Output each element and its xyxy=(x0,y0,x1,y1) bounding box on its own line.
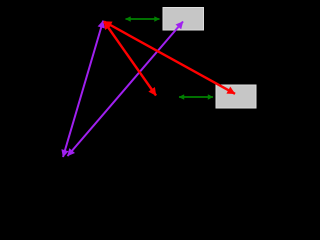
red double arrow D (top point to box 2) xyxy=(104,22,235,94)
green double arrow G2 (middle) xyxy=(179,96,213,98)
green double arrow G1 (top) xyxy=(126,18,160,20)
label box 2 (middle right) xyxy=(216,85,256,108)
label box 1 (top right) xyxy=(163,8,204,31)
red double arrow C (top point to mid lower) xyxy=(104,22,156,96)
purple double arrow A (bottom point to top point) xyxy=(63,21,103,157)
purple double arrow B (bottom point to box 1) xyxy=(68,22,184,157)
